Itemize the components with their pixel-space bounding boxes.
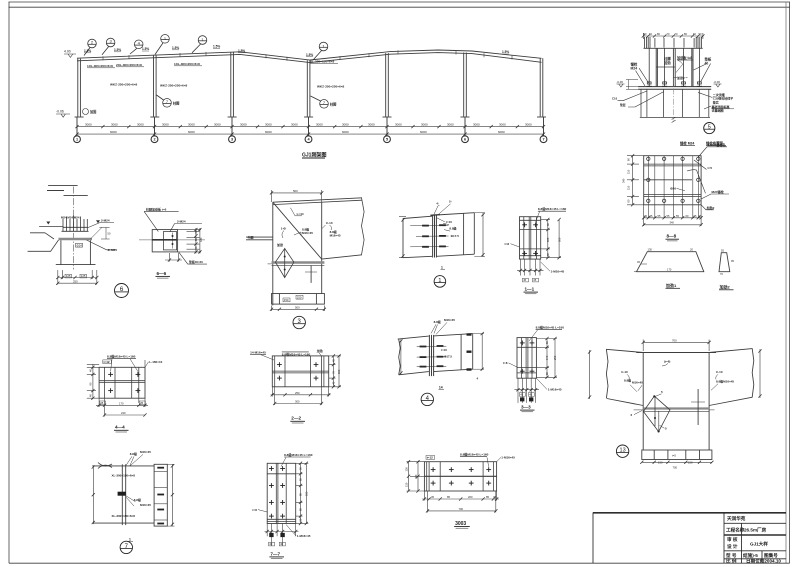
bolts 2x4 [269,466,274,471]
svg-text:加劲2: 加劲2 [676,75,685,80]
svg-text:M16×45: M16×45 [140,450,151,454]
svg-text:7: 7 [542,138,544,142]
svg-text:40: 40 [705,62,709,66]
svg-text:3000: 3000 [316,123,323,127]
svg-text:M24 M24 M24: M24 M24 M24 [61,215,80,219]
svg-text:3000: 3000 [368,123,375,127]
numbered tiny labels [631,390,668,431]
rafter end break [362,198,365,255]
detail circle 3 [293,316,305,328]
lower leader [179,252,207,264]
svg-text:C10: C10 [612,97,618,101]
stiffener 2 trapezoid [719,253,730,272]
bottom dims [58,270,97,285]
svg-text:加劲2: 加劲2 [706,205,715,210]
svg-text:130: 130 [648,248,653,252]
svg-text:8.8级M16×45 L=160: 8.8级M16×45 L=160 [107,353,136,358]
outer rect [267,463,296,523]
kite bracing [275,249,294,278]
svg-text:(t=6): (t=6) [664,360,670,364]
svg-text:M16×45: M16×45 [444,318,455,322]
svg-text:1: 1 [76,138,78,142]
svg-text:M16×45: M16×45 [140,503,151,507]
outer rect [424,462,496,491]
svg-text:700: 700 [459,507,464,511]
center vertical plate [122,464,125,525]
leader left label [636,68,649,86]
detail circle 4 [421,393,433,405]
svg-text:3000: 3000 [111,123,118,127]
svg-text:40: 40 [269,542,272,546]
boxed numbers [65,274,87,278]
elevation flags [617,84,722,87]
anchor bolt nuts on plate [647,80,652,87]
mid horizontals [272,371,328,373]
svg-text:355: 355 [305,491,309,496]
inner verticals [524,217,537,259]
centerline [139,239,205,241]
bands [517,347,536,373]
right dim line [171,464,173,526]
title block top edge [593,512,786,514]
right beam [434,334,473,372]
bottom dims [272,306,325,312]
svg-text:150: 150 [405,467,409,472]
bottom tick label [441,266,443,270]
svg-text:8—8: 8—8 [667,234,677,239]
right end weld marks [467,333,472,335]
bolts [108,372,113,377]
svg-text:t=10: t=10 [441,348,447,352]
elevation 0.00 marker [56,110,64,114]
bottom dims [271,387,331,405]
svg-text:加劲: 加劲 [663,60,671,65]
svg-text:锚栓 M24: 锚栓 M24 [680,141,694,146]
svg-text:-0.06: -0.06 [617,80,624,84]
svg-text:7—7: 7—7 [270,551,280,556]
nabla left [46,222,50,225]
svg-text:M24锚栓: M24锚栓 [712,189,725,194]
svg-text:4.00: 4.00 [64,50,71,54]
svg-text:Φ17.5: Φ17.5 [451,234,460,238]
right outer dim [759,349,761,398]
column shaft flanges [656,48,693,86]
dim ticks upper [75,125,545,136]
column bases [75,116,546,118]
verticals [105,367,139,398]
svg-text:2-M24锚栓孔: 2-M24锚栓孔 [708,142,727,147]
bottom dims [644,205,701,226]
left dim line [92,465,94,524]
roof marker circles [84,35,328,61]
column centerline [73,187,75,270]
svg-text:45: 45 [529,393,532,397]
svg-text:8.8级: 8.8级 [130,451,137,456]
detail circle 7 [120,541,132,553]
anchor bolt cluster left [645,37,650,48]
svg-text:XL-300×150×6×8: XL-300×150×6×8 [112,473,136,477]
svg-text:1.5%: 1.5% [84,49,91,53]
bolts [422,225,429,227]
mid-height column marker circles [157,95,329,108]
below extension [517,259,544,275]
left rafter [606,349,643,405]
svg-text:垫实: 垫实 [713,99,719,104]
side labels left [621,370,643,385]
left stub lines [246,237,273,240]
svg-text:180: 180 [546,237,550,242]
svg-text:45: 45 [520,393,523,397]
labels [276,212,341,247]
base plate thick [59,238,93,241]
boxed numbers [519,393,534,397]
dimension lines [77,118,544,136]
svg-text:6000: 6000 [188,130,195,134]
svg-text:3000: 3000 [214,123,221,127]
bolts 2x4 [431,467,436,472]
svg-text:8.8级M16×45: 8.8级M16×45 [716,379,734,384]
svg-text:3000: 3000 [85,123,92,127]
right beam flanges [436,213,474,257]
svg-text:1.5%: 1.5% [213,45,220,49]
top dim line [643,35,703,37]
svg-text:1XL-300×200×6×8: 1XL-300×200×6×8 [174,62,200,66]
bottom dim [642,461,712,463]
caption 6-6 [157,271,167,276]
haunch diagonal [273,202,322,259]
bolts [420,346,427,348]
purlin ticks on rafter [102,56,104,60]
svg-text:t=5: t=5 [672,453,676,457]
grid bubbles [74,117,547,143]
svg-text:8.8级M16×45 L=160: 8.8级M16×45 L=160 [460,452,489,457]
svg-text:t=5: t=5 [708,166,713,170]
center labels [663,56,671,65]
ground break left [28,226,64,251]
right rafter [709,349,754,406]
svg-text:3000: 3000 [421,123,428,127]
right dim [481,334,483,370]
svg-text:8.8级: 8.8级 [434,319,441,324]
svg-text:1XL-300×200×6×8: 1XL-300×200×6×8 [87,64,113,68]
svg-text:Φ24: Φ24 [77,243,83,247]
svg-text:1: 1 [129,537,131,541]
svg-text:3000: 3000 [395,123,402,127]
svg-text:t=8: t=8 [503,361,508,365]
svg-text:110: 110 [627,185,631,190]
svg-text:3000: 3000 [162,123,169,127]
caption 4-4 [115,425,125,430]
svg-text:WKZ-250×250×6×8: WKZ-250×250×6×8 [317,84,345,88]
svg-text:3000: 3000 [240,123,247,127]
svg-text:3000: 3000 [265,123,272,127]
svg-text:加劲: 加劲 [316,348,323,353]
svg-text:垫层: 垫层 [620,103,626,107]
right dims [329,356,341,387]
svg-text:1.5%: 1.5% [306,53,313,57]
svg-text:加固: 加固 [89,109,96,114]
top leader [144,211,202,231]
svg-text:340: 340 [622,178,626,183]
svg-text:1.5%: 1.5% [238,49,245,53]
leaders to bottom-left [618,91,665,107]
rafter bottom line [322,255,362,259]
top label [538,206,567,211]
svg-text:1-M16×45: 1-M16×45 [548,388,562,392]
outer rect [517,338,536,379]
svg-text:牛腿: 牛腿 [248,234,254,239]
right dim box [541,220,561,258]
bottom bolt blobs [520,397,524,401]
caption 8-8 [667,234,677,239]
svg-text:日期位图2004.10: 日期位图2004.10 [746,558,781,565]
svg-text:M16×45: M16×45 [302,231,313,235]
plate outline [644,156,701,205]
top label [284,452,313,457]
bottom label [439,385,443,389]
svg-text:3000: 3000 [499,123,506,127]
svg-text:250: 250 [295,391,300,395]
inner rect [163,232,176,250]
kite bracing [643,396,670,432]
svg-text:WKZ-250×250×6×8: WKZ-250×250×6×8 [110,82,138,86]
stiffener 1 trapezoid [637,252,704,272]
left label [505,242,510,246]
svg-text:250: 250 [297,295,302,299]
svg-text:6000: 6000 [498,130,505,134]
svg-text:M16×45: M16×45 [330,234,341,238]
boxed numbers [522,278,538,282]
svg-text:2-M24: 2-M24 [177,220,186,224]
top-center label [282,351,311,356]
svg-text:2-M24: 2-M24 [101,219,110,223]
title block table lines [723,513,725,564]
svg-text:1-M16×45: 1-M16×45 [297,534,311,538]
bottom right label [297,534,311,538]
right labels [87,223,117,250]
detail circle 5 [704,123,715,134]
base band [642,450,712,460]
svg-text:170: 170 [119,401,124,405]
svg-text:1: 1 [441,266,443,270]
horizontal band lines [520,220,541,255]
svg-text:M16×45: M16×45 [632,381,643,385]
inner verticals [522,338,533,379]
svg-text:Φ26: Φ26 [670,187,676,191]
top labels [436,200,452,206]
svg-text:180: 180 [199,237,203,242]
slope labels [84,45,509,57]
rafter bottom chord [77,53,542,63]
svg-text:14-M16×45: 14-M16×45 [250,350,266,354]
right label [149,360,162,364]
svg-text:150: 150 [284,298,289,302]
svg-text:40: 40 [280,542,283,546]
anchor bolt cluster right [696,37,701,48]
svg-text:8.8级: 8.8级 [449,226,456,231]
left dim line [399,217,406,258]
mid horizontal [424,475,496,477]
sheet border outer [9,1,791,3]
beam designation texts [112,473,136,518]
svg-text:设 计: 设 计 [727,543,738,550]
right dim marks [296,463,309,523]
svg-text:500: 500 [293,189,298,193]
svg-text:35: 35 [140,401,143,405]
nabla right + small dim [96,220,100,223]
svg-text:1-M16×45: 1-M16×45 [501,456,515,460]
svg-text:垫板40×40: 垫板40×40 [189,259,203,264]
svg-text:3000: 3000 [447,123,454,127]
left beam flanges [403,216,432,258]
svg-text:XL-300×150×6×8: XL-300×150×6×8 [112,514,136,518]
svg-text:柱脚: 柱脚 [329,102,337,107]
mid small labels [441,348,452,359]
svg-text:加劲1: 加劲1 [665,282,677,288]
svg-text:GJ1刚架图: GJ1刚架图 [302,152,326,159]
svg-text:t=8: t=8 [252,508,257,512]
svg-text:加劲2: 加劲2 [719,284,731,290]
detail circle 1 [434,276,446,288]
top-center label [460,452,489,457]
svg-text:C-10: C-10 [326,221,333,225]
svg-text:t=8: t=8 [505,242,510,246]
bottom dark bolts [269,533,273,537]
svg-text:45: 45 [523,278,526,282]
bottom right label [548,388,562,392]
left dims [407,462,425,491]
svg-text:3000: 3000 [137,123,144,127]
svg-text:6000: 6000 [110,130,117,134]
svg-text:14: 14 [439,385,443,389]
bottom right label [551,270,565,274]
left label [252,508,257,512]
svg-text:详基础图: 详基础图 [712,108,724,113]
svg-text:审 核: 审 核 [727,536,738,543]
svg-text:85: 85 [447,495,450,499]
outer rect [99,367,145,398]
caption 1-1 [525,287,535,292]
top-left label [250,350,266,354]
right leaders and labels [687,147,729,210]
pedestal [56,240,96,264]
boxed numbers [269,542,286,546]
right dim box [536,339,557,378]
svg-text:85: 85 [486,495,489,499]
svg-text:比 例: 比 例 [726,558,737,565]
leader right label [694,64,711,82]
svg-text:柱脚: 柱脚 [172,101,180,106]
mid plate [272,261,325,263]
shaft top line and mid line [644,48,703,67]
svg-text:WKZ-250×250×6×8: WKZ-250×250×6×8 [160,84,188,88]
svg-text:M24: M24 [631,67,638,71]
caption 3003 [455,521,466,527]
detail circle 10 [616,445,628,457]
svg-text:-0.06: -0.06 [714,80,721,84]
svg-text:t=12: t=12 [427,456,433,460]
figure caption [302,152,326,159]
washer plate line [62,230,89,232]
svg-text:240: 240 [121,411,126,415]
svg-text:1—1: 1—1 [525,287,535,292]
svg-text:5: 5 [708,124,711,130]
small left dims [626,80,638,90]
svg-text:26.5m厂房: 26.5m厂房 [744,527,767,534]
svg-text:3003: 3003 [455,521,466,527]
right dims [178,228,201,254]
svg-text:150: 150 [688,460,693,464]
svg-text:45: 45 [493,495,496,499]
svg-text:t=10: t=10 [446,220,452,224]
center dark bolt [118,492,126,496]
svg-text:加劲板 t=8: 加劲板 t=8 [676,55,692,60]
top-left label [427,456,433,460]
svg-text:8.8级M16×45 L=160: 8.8级M16×45 L=160 [536,324,565,329]
anchor bolts group [63,216,87,232]
svg-text:8.8级: 8.8级 [134,497,141,502]
sub caption texts [680,141,724,146]
svg-text:L=44: L=44 [297,212,304,216]
verticals [275,356,324,387]
svg-text:125: 125 [81,274,86,278]
svg-text:300: 300 [295,400,300,404]
svg-text:35: 35 [100,401,103,405]
svg-text:3000: 3000 [188,123,195,127]
svg-text:6000: 6000 [342,130,349,134]
svg-text:C-10: C-10 [621,370,628,374]
svg-text:XL-300×150×6×8: XL-300×150×6×8 [310,59,334,63]
svg-text:加劲: 加劲 [276,242,283,247]
top dim [643,340,709,352]
svg-text:1-M16×45: 1-M16×45 [551,270,565,274]
svg-text:柱脚加劲板 t=6: 柱脚加劲板 t=6 [145,206,167,211]
bolts [172,235,174,237]
left dims [627,156,644,205]
caption 7-7 [270,551,280,556]
top-right label [316,348,323,353]
inner verticals [276,463,286,523]
svg-text:8.8级: 8.8级 [624,378,631,383]
top labels [434,318,456,324]
mid bolt plate band [643,407,709,409]
svg-text:340: 340 [670,221,675,225]
columns [78,52,543,116]
svg-text:C-10: C-10 [716,370,723,374]
svg-text:200: 200 [468,495,473,499]
stiffener 1 caption [665,282,677,288]
dim numbers [85,123,532,135]
base plate bottom [272,294,325,305]
svg-text:4—4: 4—4 [115,425,125,430]
svg-text:45: 45 [431,495,434,499]
bottom dims [422,491,499,513]
top dim [272,190,322,202]
right end plate [154,464,167,526]
left outer dim [589,350,591,399]
svg-text:5: 5 [386,138,388,142]
mid labels [446,220,459,238]
anchor bolt shanks [649,38,699,80]
bottom dims [96,398,148,416]
caption 3-3 [521,405,531,410]
bolts [277,362,282,367]
mid horizontals [99,381,145,383]
svg-text:1: 1 [438,278,441,284]
bolt holes [647,157,700,202]
svg-text:3000: 3000 [342,123,349,127]
right dim line [482,213,484,257]
